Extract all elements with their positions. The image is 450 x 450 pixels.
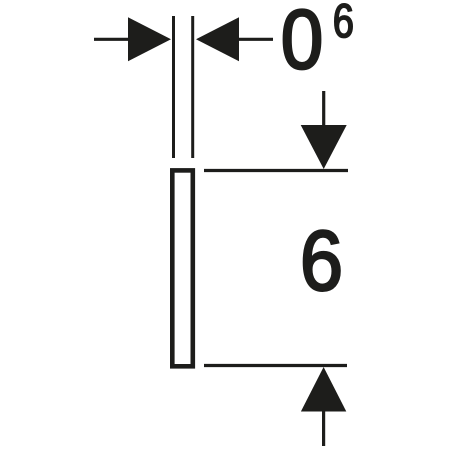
height dimension: bottom arrowhead pointing up [301,367,346,412]
thickness dimension: left leader line [94,38,129,41]
thickness value superscript 6 [335,4,352,38]
height dimension: top dimension line [204,169,348,172]
thickness dimension: right arrowhead pointing left [196,17,239,61]
thickness value 0 [284,10,320,70]
thickness dimension: right extension line [191,16,194,158]
thickness dimension: left arrowhead pointing right [128,17,171,61]
thickness dimension: right leader line [238,38,273,41]
height value 6 [304,231,340,291]
height dimension: top arrowhead pointing down [301,125,347,169]
height dimension: top arrow stem [322,91,325,127]
panel profile rectangle [172,170,193,366]
height dimension: bottom dimension line [204,364,347,367]
height dimension: bottom arrow stem [322,411,325,446]
thickness dimension: left extension line [172,16,175,158]
